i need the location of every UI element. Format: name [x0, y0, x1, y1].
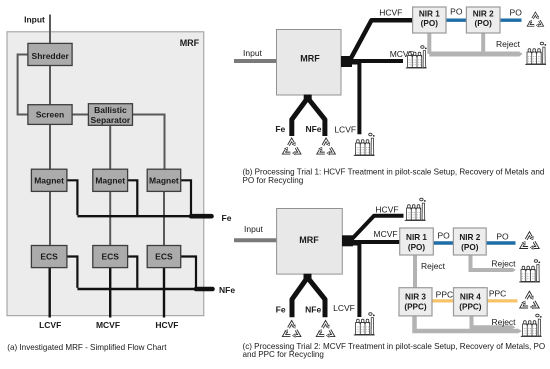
- svg-text:Input: Input: [244, 224, 264, 234]
- svg-text:MRF: MRF: [300, 53, 320, 63]
- svg-text:(PPC): (PPC): [459, 303, 482, 312]
- svg-text:and PPC for Recycling: and PPC for Recycling: [243, 350, 324, 359]
- svg-text:HCVF: HCVF: [375, 204, 398, 214]
- svg-text:PPC: PPC: [436, 289, 453, 299]
- svg-text:(PO): (PO): [475, 19, 493, 28]
- svg-text:NFe: NFe: [305, 304, 321, 314]
- svg-text:NIR 2: NIR 2: [473, 9, 494, 18]
- svg-text:NIR 3: NIR 3: [405, 292, 426, 301]
- svg-text:NIR 1: NIR 1: [406, 233, 427, 242]
- svg-text:LCVF: LCVF: [39, 320, 61, 330]
- svg-text:(PO): (PO): [421, 19, 439, 28]
- svg-text:NIR 4: NIR 4: [460, 292, 481, 301]
- svg-text:NFe: NFe: [305, 124, 321, 134]
- svg-text:Shredder: Shredder: [32, 51, 70, 61]
- svg-text:PO: PO: [437, 231, 450, 241]
- svg-text:Reject: Reject: [491, 317, 516, 327]
- svg-text:Ballistic: Ballistic: [94, 105, 127, 115]
- svg-text:PO: PO: [510, 8, 523, 18]
- svg-text:Magnet: Magnet: [34, 176, 64, 186]
- svg-text:NFe: NFe: [219, 285, 235, 295]
- svg-text:Input: Input: [24, 14, 45, 24]
- svg-text:(PO): (PO): [408, 243, 426, 252]
- svg-text:ECS: ECS: [40, 252, 58, 262]
- svg-text:MRF: MRF: [180, 38, 200, 48]
- svg-text:LCVF: LCVF: [334, 124, 356, 134]
- svg-text:NIR 1: NIR 1: [419, 9, 440, 18]
- svg-text:LCVF: LCVF: [333, 303, 355, 313]
- svg-text:Fe: Fe: [222, 213, 232, 223]
- svg-text:Reject: Reject: [496, 39, 521, 49]
- svg-text:PO: PO: [450, 6, 463, 16]
- svg-text:NIR 2: NIR 2: [459, 233, 480, 242]
- svg-text:HCVF: HCVF: [155, 320, 178, 330]
- svg-text:(PO): (PO): [461, 243, 479, 252]
- svg-text:Magnet: Magnet: [95, 176, 125, 186]
- svg-text:Magnet: Magnet: [149, 176, 179, 186]
- svg-text:ECS: ECS: [155, 252, 173, 262]
- svg-text:PO for Recycling: PO for Recycling: [243, 176, 304, 185]
- svg-text:Reject: Reject: [421, 261, 446, 271]
- svg-text:PO: PO: [496, 232, 509, 242]
- svg-text:HCVF: HCVF: [379, 7, 402, 17]
- svg-text:Input: Input: [243, 48, 263, 58]
- svg-text:MCVF: MCVF: [374, 229, 398, 239]
- svg-text:Fe: Fe: [276, 304, 286, 314]
- svg-text:MRF: MRF: [299, 235, 319, 245]
- svg-text:(PPC): (PPC): [404, 303, 427, 312]
- svg-text:MCVF: MCVF: [96, 320, 120, 330]
- svg-text:Separator: Separator: [91, 115, 131, 125]
- svg-text:ECS: ECS: [101, 252, 119, 262]
- svg-text:Screen: Screen: [36, 110, 64, 120]
- svg-text:Fe: Fe: [275, 124, 285, 134]
- svg-text:(a) Investigated MRF - Simplif: (a) Investigated MRF - Simplified Flow C…: [7, 343, 167, 352]
- svg-text:PPC: PPC: [489, 288, 506, 298]
- svg-text:Reject: Reject: [491, 258, 516, 268]
